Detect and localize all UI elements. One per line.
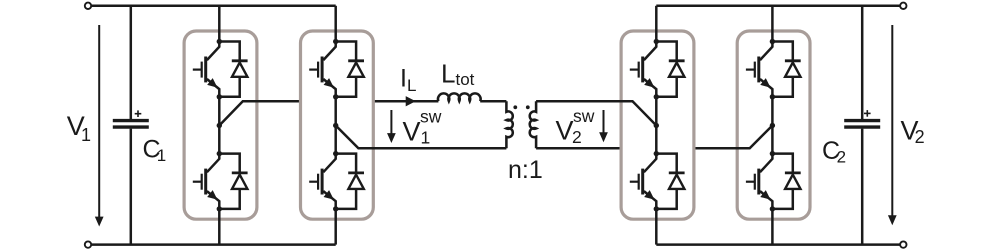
polarity plus sign for C1 (135, 113, 142, 115)
module outline: bridge-2 right half-bridge (gray rounded box) (737, 31, 810, 219)
wire: leg 1 midpoint vertical (218, 97, 221, 154)
svg-text:1: 1 (157, 146, 166, 165)
arrow: V2 port voltage (downward) (891, 25, 893, 217)
svg-text:sw: sw (573, 106, 595, 126)
transistor Q2: bottom IGBT with anti-parallel diode (193, 151, 248, 212)
svg-text:V: V (556, 116, 574, 146)
svg-text:2: 2 (915, 127, 925, 147)
module outline: bridge-2 left half-bridge (gray rounded box) (621, 31, 694, 219)
transformer polarity dot primary (513, 105, 517, 109)
svg-text:2: 2 (837, 147, 846, 166)
wire: leg 3 midpoint vertical (655, 97, 658, 154)
terminal: V2 negative terminal (open circle) (900, 241, 906, 247)
wire: transformer secondary bottom to leg4 midpoint (passes behind leg3 module) (536, 126, 772, 149)
svg-text:V: V (403, 117, 421, 147)
terminal: V1 negative terminal (open circle) (85, 241, 91, 247)
wire: leg 2 midpoint vertical (334, 97, 337, 154)
wire: leg 1 bottom vertical (emitter to DC- rail) (218, 209, 221, 245)
svg-text:n:1: n:1 (508, 156, 543, 184)
arrow: inductor current IL on top AC wire (406, 97, 414, 106)
transistor Q1: top IGBT with anti-parallel diode (193, 39, 248, 100)
wire: DC+ rail left bridge (91, 5, 336, 8)
capacitor C1 bottom plate (113, 125, 149, 128)
svg-text:1: 1 (81, 125, 91, 145)
svg-text:1: 1 (421, 128, 431, 148)
capacitor C2 branch top wire (861, 6, 864, 119)
polarity plus sign for C2 (864, 112, 871, 114)
wire: leg 3 bottom vertical (emitter to DC- rail) (655, 209, 658, 245)
wire: leg2 midpoint to transformer primary bottom (336, 126, 507, 149)
arrow: V1sw switch-node voltage (downward) (390, 110, 392, 136)
transistor Q8: bottom IGBT with anti-parallel diode (746, 151, 801, 212)
transformer secondary winding (3 humps, bulge left) (530, 101, 536, 148)
node: leg 3 midpoint junction (654, 123, 659, 128)
wire: inductor to transformer primary top (480, 100, 506, 103)
inductor Ltot (4 humps) (438, 93, 481, 101)
wire: leg 3 top vertical (DC+ rail to collector) (655, 6, 658, 42)
transformer primary winding (3 humps, bulge right) (506, 101, 512, 148)
transistor Q4: bottom IGBT with anti-parallel diode (309, 151, 364, 212)
wire: DC- rail right bridge (656, 243, 900, 246)
capacitor C2 top plate (844, 119, 880, 122)
arrow: V1 port voltage (downward) (98, 25, 100, 219)
transistor Q5: top IGBT with anti-parallel diode (630, 39, 685, 100)
wire: leg1 midpoint to inductor (top AC link, passes behind leg2 module) (219, 101, 438, 125)
svg-text:2: 2 (572, 127, 582, 147)
transformer polarity dot secondary (526, 105, 530, 109)
wire: leg 1 top vertical (DC+ rail to collector) (218, 6, 221, 42)
transistor Q7: top IGBT with anti-parallel diode (746, 39, 801, 100)
capacitor C2 bottom plate (844, 125, 880, 128)
svg-text:sw: sw (420, 106, 442, 126)
wire: leg 2 bottom vertical (emitter to DC- rail) (334, 209, 337, 245)
module outline: bridge-1 right half-bridge (gray rounded box) (301, 31, 374, 219)
node: leg 4 midpoint junction (770, 123, 775, 128)
wire: DC- rail left bridge (91, 243, 336, 246)
wire: leg 4 top vertical (DC+ rail to collector) (771, 6, 774, 42)
wire: leg 2 top vertical (DC+ rail to collector) (334, 6, 337, 42)
terminal: V1 positive terminal (open circle) (85, 3, 91, 9)
module outline: bridge-1 left half-bridge (gray rounded box) (184, 31, 257, 219)
capacitor C2 branch bottom wire (861, 129, 864, 245)
wire: leg 4 bottom vertical (emitter to DC- rail) (771, 209, 774, 245)
terminal: V2 positive terminal (open circle) (900, 3, 906, 9)
svg-text:Ltot: Ltot (441, 59, 475, 89)
wire: DC+ rail right bridge (656, 5, 900, 8)
wire: leg 4 midpoint vertical (771, 97, 774, 154)
wire: transformer secondary top to leg3 midpoint (536, 101, 656, 125)
transistor Q3: top IGBT with anti-parallel diode (309, 39, 364, 100)
capacitor C1 branch top wire (130, 6, 133, 119)
node: leg 2 midpoint junction (333, 123, 338, 128)
arrow: V2sw switch-node voltage (downward) (603, 110, 605, 135)
transistor Q6: bottom IGBT with anti-parallel diode (630, 151, 685, 212)
svg-text:IL: IL (400, 64, 416, 95)
node: leg 1 midpoint junction (217, 123, 222, 128)
capacitor C1 branch bottom wire (130, 129, 133, 245)
capacitor C1 top plate (113, 119, 149, 122)
